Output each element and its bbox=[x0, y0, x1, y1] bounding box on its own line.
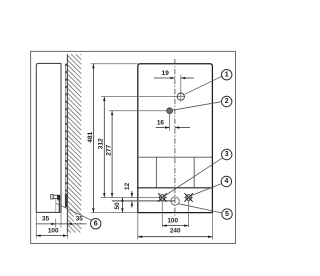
hole 2 (filled, left of center) bbox=[167, 108, 173, 114]
dim 100 (hole spacing) bbox=[162, 200, 188, 227]
band divider left bbox=[155, 157, 157, 188]
mounting rail bbox=[65, 63, 67, 207]
center line (dash-dot) bbox=[174, 59, 176, 216]
appliance front view outline bbox=[138, 64, 213, 213]
svg-text:19: 19 bbox=[162, 70, 170, 77]
leader to callout 5 bbox=[179, 204, 222, 213]
svg-text:50: 50 bbox=[114, 202, 121, 210]
svg-text:1: 1 bbox=[225, 71, 229, 78]
bottom edge extension line bbox=[91, 212, 138, 214]
svg-text:100: 100 bbox=[167, 218, 178, 225]
lower band bottom line bbox=[138, 187, 213, 189]
dim 19 bbox=[180, 75, 182, 102]
wall hatching bbox=[67, 54, 81, 232]
dim 240 bbox=[138, 214, 213, 240]
dim 12 bbox=[131, 191, 133, 197]
extension line mounting-hole level (A) bbox=[101, 196, 167, 198]
svg-text:6: 6 bbox=[94, 220, 98, 227]
dim 481 bbox=[92, 64, 94, 213]
appliance side view body bbox=[36, 63, 61, 212]
dim 312 bbox=[103, 97, 105, 198]
leader to callout 4 bbox=[191, 184, 222, 196]
wall face line bbox=[66, 54, 68, 232]
callout circle 5 bbox=[222, 209, 232, 219]
callout circle 6 bbox=[91, 219, 101, 229]
extension line pipe level (B, pipe walls) bbox=[112, 199, 175, 201]
svg-text:481: 481 bbox=[87, 131, 94, 142]
text 35 right bbox=[74, 215, 85, 223]
svg-text:3: 3 bbox=[225, 151, 229, 158]
band divider right bbox=[193, 157, 195, 188]
pipe hole middle (callout 5) bbox=[171, 197, 179, 205]
svg-text:35: 35 bbox=[42, 216, 50, 223]
callout circle 2 bbox=[222, 96, 232, 106]
mounting hole right (callout 4) bbox=[186, 195, 192, 201]
leader to callout 6 bbox=[56, 203, 92, 220]
extension line hole2 level (277) bbox=[109, 110, 173, 112]
svg-text:277: 277 bbox=[105, 144, 112, 155]
leader to callout 3 bbox=[164, 158, 222, 196]
svg-text:312: 312 bbox=[98, 138, 105, 149]
drawing border frame bbox=[31, 51, 236, 243]
callout circle 1 bbox=[222, 70, 232, 80]
svg-text:12: 12 bbox=[124, 182, 131, 190]
svg-text:5: 5 bbox=[225, 211, 229, 218]
svg-text:4: 4 bbox=[224, 178, 228, 185]
callout circle 4 bbox=[221, 176, 231, 186]
hole 1 (upper cable entry) bbox=[177, 93, 184, 100]
leader to callout 2 bbox=[172, 102, 221, 111]
pipe down from fitting bbox=[58, 200, 60, 212]
pipe fitting (callout 6 target) bbox=[51, 195, 54, 199]
mounting hole left (callout 3) bbox=[160, 195, 166, 201]
top edge extension line bbox=[91, 63, 138, 65]
dim line 100 (side view) bbox=[36, 235, 67, 237]
dim line 35|35 bbox=[36, 223, 87, 225]
dim 50 bbox=[121, 197, 123, 212]
svg-text:100: 100 bbox=[48, 228, 59, 235]
svg-text:2: 2 bbox=[225, 98, 229, 105]
svg-text:240: 240 bbox=[170, 227, 181, 234]
dim 16 bbox=[169, 107, 171, 131]
svg-text:16: 16 bbox=[157, 120, 165, 127]
svg-text:35: 35 bbox=[76, 216, 84, 223]
lower band top line bbox=[138, 156, 213, 158]
extension line hole1 level (312) bbox=[101, 96, 185, 98]
dim 277 bbox=[111, 111, 113, 198]
extension lines 35/35/100 dims bbox=[36, 213, 67, 238]
callout circle 3 bbox=[222, 149, 232, 159]
leader to callout 1 bbox=[185, 76, 222, 94]
